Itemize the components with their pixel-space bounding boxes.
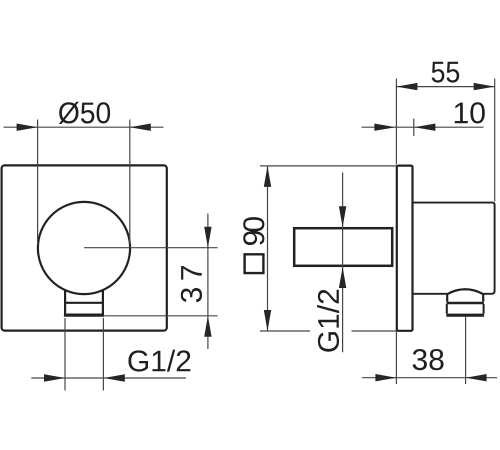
square90 dimension line (267, 166, 269, 331)
label square 90 (243, 217, 264, 274)
arrow 55 left (396, 83, 417, 90)
label Ø50 (59, 102, 110, 124)
centerline of circle to 37 dim (84, 247, 218, 249)
arrow 37 top (204, 227, 211, 248)
label 38 (413, 349, 444, 370)
hose connector front: divider (64, 302, 104, 304)
38 extension line left (wall) (395, 331, 397, 384)
Ø50 extension line left (37, 120, 39, 245)
55 extension line left (wall) (395, 79, 397, 165)
front plate (square 90x90) (2, 165, 167, 330)
55 dimension line (396, 86, 494, 88)
side hose connector: nut (447, 304, 484, 314)
label G1/2 side (317, 290, 339, 352)
arrow 55 right (474, 83, 495, 90)
Ø50 extension line right (129, 120, 131, 245)
label 37 (181, 266, 202, 302)
square90 top extension line (260, 165, 396, 167)
38 centerline extension (465, 317, 467, 385)
arrow Ø50 left (17, 124, 38, 131)
arrow 38 left (375, 374, 396, 381)
arrow square90 bottom (264, 310, 271, 331)
37 dimension line (207, 214, 209, 350)
arrow 10 right (414, 124, 435, 131)
10 extension line right (413, 119, 415, 137)
side wall plate (397, 166, 413, 331)
38 dimension line (362, 377, 497, 379)
G1/2 front extension lines (64, 318, 66, 391)
side body housing (413, 203, 495, 294)
hose connector front: sides (65, 290, 103, 313)
arrow G1/2 side bottom (339, 267, 346, 288)
10 dimension line (362, 126, 484, 128)
side hose connector: divider (447, 302, 484, 304)
arrow square90 top (264, 166, 271, 187)
hose connector front: thick bottom (64, 313, 104, 316)
arrow G1/2 side top (339, 206, 346, 227)
side hose connector: dome (447, 289, 483, 302)
label 55 (432, 62, 460, 83)
side pipe stub (supply) (294, 228, 392, 266)
label 10 (455, 102, 485, 123)
arrow 37 bottom (204, 316, 211, 337)
side hose connector: thick bottom (446, 314, 484, 317)
label G1/2 front (128, 350, 190, 372)
arrow 10 left (374, 124, 395, 131)
G1/2 side dimension line (342, 173, 344, 353)
square90 bottom extension line (260, 330, 310, 332)
G1/2 front dimension line (31, 377, 186, 379)
37 extension line bottom (104, 315, 217, 317)
arrow G1/2 front right (104, 374, 125, 381)
circle Ø50 (front outlet boss) (38, 202, 130, 294)
arrow 38 right (466, 374, 487, 381)
Ø50 dimension line tails (4, 126, 164, 128)
arrow Ø50 right (130, 124, 151, 131)
arrow G1/2 front left (44, 374, 65, 381)
55 extension line right (494, 79, 496, 202)
